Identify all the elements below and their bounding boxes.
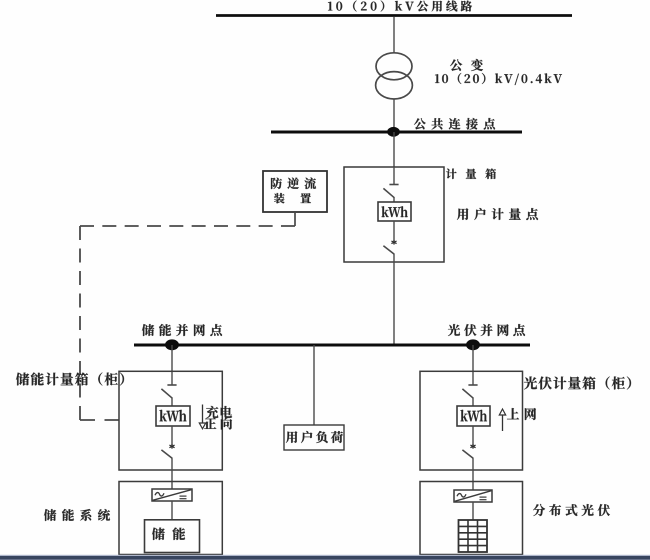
wire: metering box down to LV bus <box>393 254 395 345</box>
wire: PV node into PV metering cabinet <box>472 345 474 385</box>
storage metering cabinet 储能计量箱(柜) <box>119 371 222 470</box>
label: 防逆流 <box>271 178 316 190</box>
storage system box 储能系统 <box>119 482 222 555</box>
bus: point of common coupling (公共连接点) <box>271 131 522 134</box>
node: PV grid-connection point dot (光伏并网点) <box>466 339 480 350</box>
label: 光伏计量箱（柜） <box>524 377 631 390</box>
label: kWh (PV) <box>461 410 488 422</box>
wire: transformer secondary to PCC bus <box>393 99 395 132</box>
wire: cabinet down into PV system <box>472 458 474 490</box>
meter kWh (storage) <box>156 406 190 426</box>
disconnect switch (upper, user meter) <box>389 184 398 186</box>
distributed PV box 分布式光伏 <box>420 482 523 555</box>
meter kWh (user metering point) <box>378 202 411 221</box>
label: 用户计量点 <box>457 208 538 220</box>
wire: PCC bus to user metering box <box>393 132 395 168</box>
PV module symbol (cell grid) <box>459 520 488 552</box>
wire: switch to meter <box>393 198 395 203</box>
node: storage grid-connection point dot (储能并网点) <box>165 339 179 350</box>
wire: converter to battery <box>171 501 173 519</box>
bottom page rule <box>0 555 650 556</box>
label: 计量箱 <box>446 169 496 180</box>
label: 光伏并网点 <box>448 324 525 336</box>
bus: 10(20)kV public feeder line <box>216 14 572 17</box>
disconnect switch (lower, storage) <box>161 450 172 459</box>
charge direction arrow (down) <box>202 405 204 425</box>
wire: PV meter to lower switch <box>472 426 474 445</box>
wire: storage meter to lower switch <box>171 426 173 445</box>
converter (PV inverter, AC/DC) <box>454 490 492 502</box>
disconnect switch (lower, user meter) <box>383 246 394 255</box>
label: 10(20)kV公用线路 <box>328 1 472 12</box>
wire: inverter to PV module <box>472 502 474 520</box>
wire: switch to storage meter <box>171 398 173 407</box>
label: 分布式光伏 <box>533 504 610 516</box>
wire: meter to lower switch <box>393 221 395 241</box>
star terminal mark (PV) <box>472 444 474 449</box>
signal wire (dashed) into cabinet <box>80 419 120 421</box>
disconnect switch (upper, storage) <box>167 384 176 386</box>
signal wire (dashed) vertical run <box>79 226 81 420</box>
anti-backflow device box 防逆流装置 <box>263 171 327 212</box>
label: 公共连接点 <box>414 118 495 130</box>
label: 正向 <box>204 418 232 430</box>
label: kWh (user) <box>382 206 408 217</box>
label: kWh (storage) <box>160 410 187 422</box>
wire: cabinet down into storage system <box>171 458 173 489</box>
star terminal mark (storage) <box>171 444 173 449</box>
wire: bus tap to user load <box>313 345 315 425</box>
star terminal mark <box>393 240 395 245</box>
label: 10(20)kV/0.4kV <box>435 73 562 85</box>
wire: storage node into storage metering cabinet <box>171 345 173 385</box>
meter kWh (PV) <box>457 406 490 426</box>
wire: box top to switch <box>393 167 395 185</box>
wire: device to signal line (solid drop) <box>294 212 296 226</box>
label: 用户负荷 <box>286 431 343 443</box>
wire: switch to PV meter <box>472 398 474 407</box>
user load box 用户负荷 <box>284 425 344 450</box>
label: 储能 <box>152 528 185 541</box>
export direction arrow (up) 上网 <box>502 414 504 432</box>
wire: feeder to transformer primary <box>393 17 395 54</box>
disconnect switch (upper, PV) <box>468 384 477 386</box>
disconnect switch (lower, PV) <box>462 450 473 459</box>
converter (storage PCS, AC/DC) <box>152 489 192 501</box>
label: 储能系统 <box>44 509 110 521</box>
label: 充电 <box>206 406 232 418</box>
label: 储能并网点 <box>142 324 222 336</box>
bus: 0.4kV user bus <box>134 344 530 347</box>
battery box 储能 <box>145 520 200 553</box>
PV metering cabinet 光伏计量箱(柜) <box>420 371 523 470</box>
transformer T (公变) secondary winding <box>376 72 413 99</box>
transformer T (公变) primary winding <box>376 53 412 80</box>
label: 公变 <box>450 59 483 71</box>
metering box 计量箱 (user) <box>344 167 444 262</box>
label: 装置 <box>274 193 311 204</box>
label: 上网 <box>507 408 536 420</box>
signal wire (dashed) to storage metering cabinet <box>80 225 295 227</box>
node: PCC junction dot <box>387 127 400 137</box>
label: 储能计量箱（柜） <box>16 373 124 386</box>
